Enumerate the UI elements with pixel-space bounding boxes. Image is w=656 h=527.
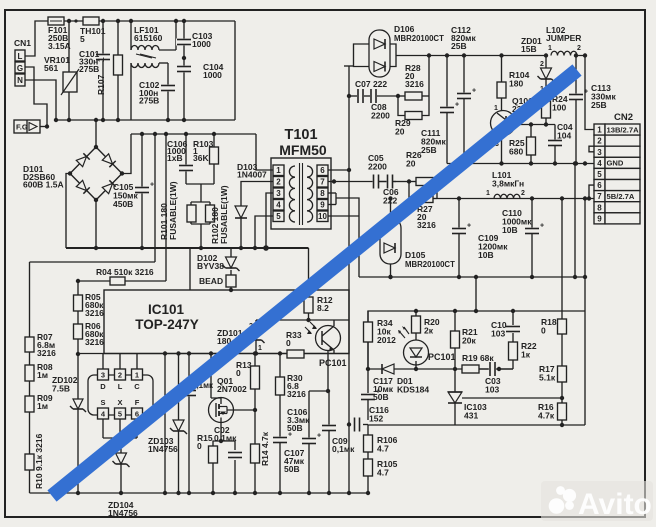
wire pin3 to B- bbox=[266, 193, 273, 248]
zener ZD01 bbox=[521, 36, 555, 101]
svg-text:2к: 2к bbox=[424, 326, 434, 336]
transformer pin 2 bbox=[273, 177, 284, 188]
svg-text:5: 5 bbox=[597, 170, 602, 179]
svg-text:X: X bbox=[117, 398, 122, 407]
mosfet Q01 bbox=[209, 354, 248, 423]
resistor R29 bbox=[395, 56, 429, 137]
svg-text:FUSABLE(1W): FUSABLE(1W) bbox=[168, 181, 178, 240]
svg-text:100: 100 bbox=[552, 103, 566, 113]
svg-text:6: 6 bbox=[597, 181, 602, 190]
svg-text:1000: 1000 bbox=[192, 39, 211, 49]
zener ZD104 bbox=[108, 438, 138, 518]
ferrite BEAD bbox=[199, 270, 236, 292]
transformer pin 3 bbox=[273, 188, 284, 199]
resistor R27 bbox=[409, 182, 437, 231]
capacitor C116 node to R106 bbox=[367, 425, 369, 436]
svg-text:D: D bbox=[100, 382, 106, 391]
svg-text:5: 5 bbox=[118, 410, 122, 419]
wire pin5 to B- bbox=[255, 216, 273, 248]
svg-text:L: L bbox=[118, 382, 123, 391]
svg-text:1: 1 bbox=[135, 371, 139, 380]
svg-text:+: + bbox=[467, 223, 471, 230]
resistor R18 bbox=[541, 199, 567, 336]
svg-text:10B: 10B bbox=[502, 225, 518, 235]
svg-text:R14 4.7к: R14 4.7к bbox=[260, 431, 270, 466]
svg-text:1м: 1м bbox=[37, 401, 48, 411]
capacitor C07 bbox=[349, 79, 387, 104]
lower AC line bbox=[54, 118, 235, 122]
resistor R09 bbox=[25, 381, 53, 412]
svg-text:3,8мкГн: 3,8мкГн bbox=[492, 179, 524, 189]
wire rail to box bbox=[475, 277, 477, 311]
capacitor C106 primary bbox=[167, 134, 194, 184]
svg-text:4: 4 bbox=[276, 201, 281, 210]
svg-text:GND: GND bbox=[607, 159, 624, 168]
shunt regulator IC103 bbox=[448, 369, 487, 425]
capacitor C109 bbox=[451, 199, 508, 278]
wire D105 box left bbox=[358, 214, 360, 277]
capacitor C111 bbox=[421, 56, 459, 164]
secondary main vertical bbox=[347, 66, 351, 424]
wire pin7 to C05 bbox=[328, 179, 396, 183]
svg-text:2: 2 bbox=[118, 371, 122, 380]
transformer pin 7 bbox=[317, 177, 328, 188]
resistor R10 bbox=[25, 412, 44, 493]
transformer T101 label bbox=[279, 127, 327, 158]
capacitor C112 bbox=[451, 25, 476, 164]
svg-text:C: C bbox=[134, 382, 140, 391]
svg-text:680: 680 bbox=[509, 147, 523, 157]
svg-text:KDS184: KDS184 bbox=[397, 385, 429, 395]
svg-text:+: + bbox=[584, 89, 588, 96]
capacitor C05 bbox=[368, 153, 387, 190]
svg-text:2: 2 bbox=[276, 178, 281, 187]
wire Q01 gate bbox=[227, 408, 257, 412]
svg-text:MBR20100CT: MBR20100CT bbox=[405, 260, 455, 269]
svg-text:R04 510к 3216: R04 510к 3216 bbox=[96, 267, 154, 277]
dual diode D106 bbox=[344, 24, 444, 77]
wire R04 feed column bbox=[165, 134, 167, 281]
resistor R107 bbox=[96, 21, 123, 120]
svg-text:BEAD: BEAD bbox=[199, 276, 223, 286]
svg-text:1N4756: 1N4756 bbox=[108, 508, 138, 518]
wire left HV column bbox=[154, 134, 156, 262]
transformer pin 4 bbox=[273, 200, 284, 211]
svg-text:IC101: IC101 bbox=[148, 302, 185, 317]
svg-text:275B: 275B bbox=[139, 96, 159, 106]
svg-text:1: 1 bbox=[494, 105, 498, 112]
capacitor C04 bbox=[547, 122, 573, 164]
svg-text:N: N bbox=[17, 76, 23, 85]
B+ rail bbox=[131, 132, 256, 136]
svg-text:50B: 50B bbox=[284, 464, 300, 474]
svg-text:3: 3 bbox=[101, 371, 105, 380]
wire snubber node bbox=[186, 184, 214, 202]
svg-text:MFM50: MFM50 bbox=[279, 142, 327, 158]
resistor R103 bbox=[193, 134, 219, 184]
wire R101 R102 pair bbox=[191, 202, 210, 250]
svg-text:1: 1 bbox=[548, 45, 552, 52]
zener ZD102 bbox=[52, 354, 86, 493]
connector CN2 bbox=[594, 112, 640, 224]
wire pin2 to D103 bbox=[241, 182, 273, 192]
capacitor C102 bbox=[139, 63, 176, 120]
svg-text:1N4756: 1N4756 bbox=[148, 444, 178, 454]
svg-text:R107: R107 bbox=[96, 74, 106, 95]
svg-text:8.2: 8.2 bbox=[317, 303, 329, 313]
wire pin1 to B+ bbox=[256, 134, 273, 170]
capacitor C103 bbox=[176, 21, 213, 58]
wire bridge left down bbox=[66, 174, 70, 249]
frame-ground F.G symbol bbox=[14, 120, 40, 133]
svg-text:1N4007: 1N4007 bbox=[237, 170, 267, 180]
capacitor C101 bbox=[79, 21, 111, 120]
resistor R22 bbox=[509, 333, 537, 369]
wire 5V to lower rail bbox=[583, 196, 587, 277]
svg-text:F.G: F.G bbox=[16, 123, 28, 132]
svg-text:D105: D105 bbox=[405, 250, 426, 260]
capacitor C107 bbox=[272, 395, 305, 493]
IC103 ref wire bbox=[462, 396, 564, 400]
resistor R101 fusable bbox=[159, 181, 196, 240]
svg-text:MBR20100CT: MBR20100CT bbox=[394, 34, 444, 43]
line filter LF101 bbox=[131, 21, 176, 120]
top rail bbox=[99, 19, 235, 23]
B- line bbox=[66, 245, 309, 251]
zener ZD103 bbox=[148, 354, 187, 494]
svg-text:1000: 1000 bbox=[203, 70, 222, 80]
svg-text:2200: 2200 bbox=[371, 111, 390, 121]
svg-text:450B: 450B bbox=[113, 199, 133, 209]
svg-text:5: 5 bbox=[276, 212, 281, 221]
svg-text:1: 1 bbox=[258, 345, 262, 352]
svg-text:13B/2.7A: 13B/2.7A bbox=[607, 125, 640, 134]
capacitor C03 bbox=[479, 361, 513, 395]
svg-text:TOP-247Y: TOP-247Y bbox=[135, 317, 199, 332]
transformer pin 8 bbox=[317, 188, 328, 199]
capacitor C106 sec bbox=[287, 391, 328, 493]
resistor R104 bbox=[497, 56, 530, 111]
Avito watermark bbox=[549, 486, 652, 521]
resistor R33 bbox=[286, 330, 304, 358]
svg-text:2: 2 bbox=[597, 137, 602, 146]
svg-text:PC101: PC101 bbox=[319, 358, 347, 368]
svg-text:0: 0 bbox=[236, 368, 241, 378]
svg-text:25B: 25B bbox=[591, 100, 607, 110]
Avito watermark backdrop bbox=[541, 481, 653, 521]
aux box left edge bbox=[189, 248, 191, 290]
IC101 chip TOP-247Y bbox=[88, 354, 153, 420]
diode D01 bbox=[382, 364, 429, 395]
wire pin6 to secondary bbox=[328, 168, 351, 172]
capacitor C02 bbox=[214, 425, 243, 493]
svg-text:1xB: 1xB bbox=[167, 153, 183, 163]
capacitor C113 bbox=[568, 53, 616, 163]
resistor R15 bbox=[197, 433, 221, 493]
svg-text:CN1: CN1 bbox=[14, 38, 31, 48]
svg-text:104: 104 bbox=[557, 131, 571, 141]
wire FG to junction bbox=[40, 124, 49, 128]
wire mid column bbox=[164, 354, 166, 494]
svg-text:600B 1.5A: 600B 1.5A bbox=[23, 180, 64, 190]
capacitor C116 bbox=[347, 405, 389, 433]
svg-text:103: 103 bbox=[491, 329, 505, 339]
resistor R06 bbox=[74, 321, 105, 356]
GND rail bbox=[447, 161, 594, 165]
svg-text:3216: 3216 bbox=[85, 337, 104, 347]
resistor R21 bbox=[451, 311, 478, 369]
resistor R19 bbox=[462, 353, 494, 373]
capacitor C08 bbox=[364, 88, 400, 121]
svg-text:50B: 50B bbox=[373, 392, 389, 402]
svg-text:+: + bbox=[455, 102, 459, 109]
wire N to lower AC line bbox=[25, 80, 56, 120]
Q101 base row bbox=[517, 122, 555, 126]
svg-text:CN2: CN2 bbox=[614, 112, 633, 123]
svg-text:7: 7 bbox=[597, 192, 602, 201]
wire pins 8 9 bracket bbox=[328, 193, 359, 214]
svg-text:2012: 2012 bbox=[377, 335, 396, 345]
CN2 pin5-6 bracket bbox=[589, 185, 594, 198]
thermistor TH101 bbox=[80, 17, 106, 44]
resistor R24 bbox=[542, 94, 568, 125]
capacitor C01 bbox=[181, 354, 214, 494]
resistor R13 bbox=[236, 351, 260, 410]
primary ground rail bbox=[30, 491, 369, 495]
svg-text:0,1мк: 0,1мк bbox=[214, 433, 237, 443]
svg-text:S: S bbox=[100, 398, 105, 407]
svg-text:20к: 20к bbox=[462, 336, 476, 346]
svg-text:10: 10 bbox=[318, 212, 327, 221]
svg-text:Avito: Avito bbox=[578, 488, 652, 521]
svg-text:36K: 36K bbox=[193, 153, 209, 163]
svg-text:103: 103 bbox=[485, 385, 499, 395]
feedback box bbox=[368, 277, 585, 425]
svg-text:+: + bbox=[288, 432, 292, 439]
svg-text:5B/2.7A: 5B/2.7A bbox=[607, 192, 635, 201]
capacitor C105 bbox=[113, 134, 154, 250]
svg-text:7: 7 bbox=[320, 178, 325, 187]
wire PC101 emitter bbox=[326, 351, 330, 394]
svg-text:3: 3 bbox=[597, 148, 602, 157]
inductor L102 bbox=[546, 25, 581, 56]
svg-text:C07 222: C07 222 bbox=[355, 79, 387, 89]
svg-text:FUSABLE(1W): FUSABLE(1W) bbox=[219, 185, 229, 244]
secondary ground rail bbox=[359, 275, 587, 279]
svg-text:8: 8 bbox=[597, 203, 602, 212]
13V rail bbox=[396, 53, 548, 57]
svg-text:T101: T101 bbox=[284, 127, 317, 143]
resistor R30 bbox=[276, 351, 307, 399]
resistor R102 fusable bbox=[206, 185, 230, 244]
opto transistor PC101 bbox=[305, 320, 347, 368]
svg-text:G: G bbox=[17, 64, 23, 73]
transformer pin 10 bbox=[317, 211, 328, 222]
zener ZD101 bbox=[217, 320, 265, 354]
svg-text:561: 561 bbox=[44, 63, 58, 73]
svg-text:9: 9 bbox=[320, 201, 325, 210]
svg-text:6: 6 bbox=[320, 166, 325, 175]
svg-text:180: 180 bbox=[509, 79, 523, 89]
svg-text:3216: 3216 bbox=[85, 308, 104, 318]
wire bridge bottom down bbox=[95, 200, 97, 248]
svg-text:1м: 1м bbox=[37, 370, 48, 380]
svg-text:0: 0 bbox=[541, 326, 546, 336]
resistor R16 bbox=[538, 382, 567, 427]
svg-text:1: 1 bbox=[597, 126, 602, 135]
wire L102 to CN2 pin1 bbox=[577, 53, 594, 129]
resistor R106 bbox=[364, 435, 398, 454]
svg-text:1: 1 bbox=[486, 190, 490, 197]
svg-text:2: 2 bbox=[540, 61, 544, 68]
resistor R34 bbox=[364, 311, 397, 371]
svg-text:+: + bbox=[150, 182, 154, 189]
svg-text:D106: D106 bbox=[394, 24, 415, 34]
svg-text:2: 2 bbox=[521, 190, 525, 197]
svg-text:3216: 3216 bbox=[417, 220, 436, 230]
resistor R05 bbox=[74, 281, 105, 324]
svg-text:1: 1 bbox=[96, 57, 106, 62]
svg-text:F: F bbox=[135, 398, 140, 407]
svg-text:0: 0 bbox=[197, 441, 202, 451]
svg-text:25B: 25B bbox=[451, 41, 467, 51]
svg-text:+: + bbox=[317, 433, 321, 440]
input box right edge bbox=[234, 21, 236, 120]
svg-text:3: 3 bbox=[276, 189, 281, 198]
svg-text:7.5B: 7.5B bbox=[52, 384, 70, 394]
wire long vertical bottom bbox=[348, 424, 350, 493]
svg-text:2N7002: 2N7002 bbox=[217, 384, 247, 394]
wire pin10 bbox=[328, 215, 359, 217]
GND to rail link bbox=[573, 161, 577, 279]
svg-text:8: 8 bbox=[320, 189, 325, 198]
inductor L101 bbox=[486, 170, 525, 199]
svg-text:3.15A: 3.15A bbox=[48, 41, 71, 51]
fuse F101 bbox=[48, 17, 71, 51]
svg-text:431: 431 bbox=[464, 411, 478, 421]
blue watermark stripe bbox=[52, 70, 577, 496]
source rail bbox=[104, 351, 349, 355]
diode D103 bbox=[235, 162, 267, 248]
resistor R20 bbox=[412, 309, 440, 340]
resistor R04 bbox=[76, 267, 166, 285]
wire varistor to AC line bbox=[68, 92, 70, 120]
wire left column top bbox=[30, 262, 156, 337]
dual diode D105 bbox=[380, 196, 455, 279]
svg-text:L: L bbox=[18, 52, 23, 61]
transformer T101 body bbox=[271, 158, 331, 229]
svg-text:3216: 3216 bbox=[405, 79, 424, 89]
wire fuse to thermistor bbox=[64, 19, 83, 23]
svg-text:20: 20 bbox=[406, 159, 416, 169]
transformer pin 5 bbox=[273, 211, 284, 222]
svg-text:+: + bbox=[540, 223, 544, 230]
wire pc top line bbox=[256, 319, 349, 321]
wire L to fuse bbox=[25, 21, 48, 56]
svg-text:615160: 615160 bbox=[134, 33, 163, 43]
svg-text:4.7: 4.7 bbox=[377, 444, 389, 454]
svg-text:152: 152 bbox=[369, 414, 383, 424]
capacitor C10 bbox=[491, 311, 521, 339]
capacitor C110 bbox=[502, 199, 544, 278]
svg-text:0: 0 bbox=[286, 338, 291, 348]
svg-text:5: 5 bbox=[80, 34, 85, 44]
svg-text:4.7: 4.7 bbox=[377, 468, 389, 478]
svg-text:275B: 275B bbox=[79, 64, 99, 74]
svg-text:PC101: PC101 bbox=[428, 352, 456, 362]
wire bridge top to AC bbox=[94, 118, 98, 147]
feedback row bbox=[368, 367, 513, 371]
connector CN1 bbox=[14, 38, 31, 86]
svg-text:9: 9 bbox=[597, 214, 602, 223]
svg-text:BYV38: BYV38 bbox=[197, 261, 224, 271]
resistor R17 bbox=[539, 334, 567, 383]
svg-text:10B: 10B bbox=[478, 250, 494, 260]
CN2 pin2-3 bracket bbox=[585, 146, 594, 152]
capacitor C104 bbox=[176, 56, 224, 120]
svg-text:3216: 3216 bbox=[287, 389, 306, 399]
label D101 bbox=[23, 164, 64, 190]
resistor R12 bbox=[304, 248, 333, 322]
svg-text:5.1к: 5.1к bbox=[539, 373, 556, 383]
transformer pin 1 bbox=[273, 165, 284, 176]
IC101 label box bbox=[104, 290, 349, 354]
resistor R14 bbox=[251, 410, 271, 493]
resistor R08 bbox=[25, 352, 53, 381]
IC101 source line bbox=[78, 353, 104, 355]
diode D102 bbox=[197, 248, 240, 271]
svg-text:R10 9.1к 3216: R10 9.1к 3216 bbox=[34, 433, 44, 489]
resistor R105 bbox=[364, 452, 398, 495]
bridge rectifier D101 bbox=[68, 145, 124, 202]
svg-text:3216: 3216 bbox=[37, 348, 56, 358]
resistor R28 bbox=[398, 63, 429, 100]
capacitor C117 bbox=[360, 369, 394, 420]
wire bridge right to B+ rail bbox=[122, 134, 131, 174]
transistor Q101 bbox=[491, 96, 534, 164]
svg-text:4: 4 bbox=[597, 159, 602, 168]
capacitor C06 bbox=[379, 174, 411, 206]
resistor R07 bbox=[25, 332, 56, 358]
transformer pin 6 bbox=[317, 165, 328, 176]
svg-text:2: 2 bbox=[577, 45, 581, 52]
svg-text:1: 1 bbox=[276, 166, 281, 175]
svg-text:0,1мк: 0,1мк bbox=[332, 444, 355, 454]
svg-text:20: 20 bbox=[395, 127, 405, 137]
svg-text:4.7к: 4.7к bbox=[538, 411, 555, 421]
transformer pin 9 bbox=[317, 200, 328, 211]
svg-text:2200: 2200 bbox=[368, 162, 387, 172]
opto LED PC101 bbox=[398, 326, 456, 365]
IC101 bottom pin wires bbox=[103, 419, 137, 440]
resistor R25 bbox=[509, 125, 536, 164]
wire Q01 source bbox=[219, 418, 223, 444]
resistor R26 bbox=[406, 150, 437, 186]
svg-text:1к: 1к bbox=[521, 350, 531, 360]
varistor VR101 bbox=[44, 21, 79, 95]
5V line bbox=[437, 196, 594, 200]
svg-text:15B: 15B bbox=[521, 44, 537, 54]
wire LED bottom bbox=[414, 361, 418, 371]
svg-text:JUMPER: JUMPER bbox=[546, 33, 581, 43]
svg-text:+: + bbox=[472, 88, 476, 95]
capacitor C09 bbox=[321, 391, 355, 493]
wire G to FG bbox=[25, 67, 47, 126]
svg-text:25B: 25B bbox=[421, 145, 437, 155]
